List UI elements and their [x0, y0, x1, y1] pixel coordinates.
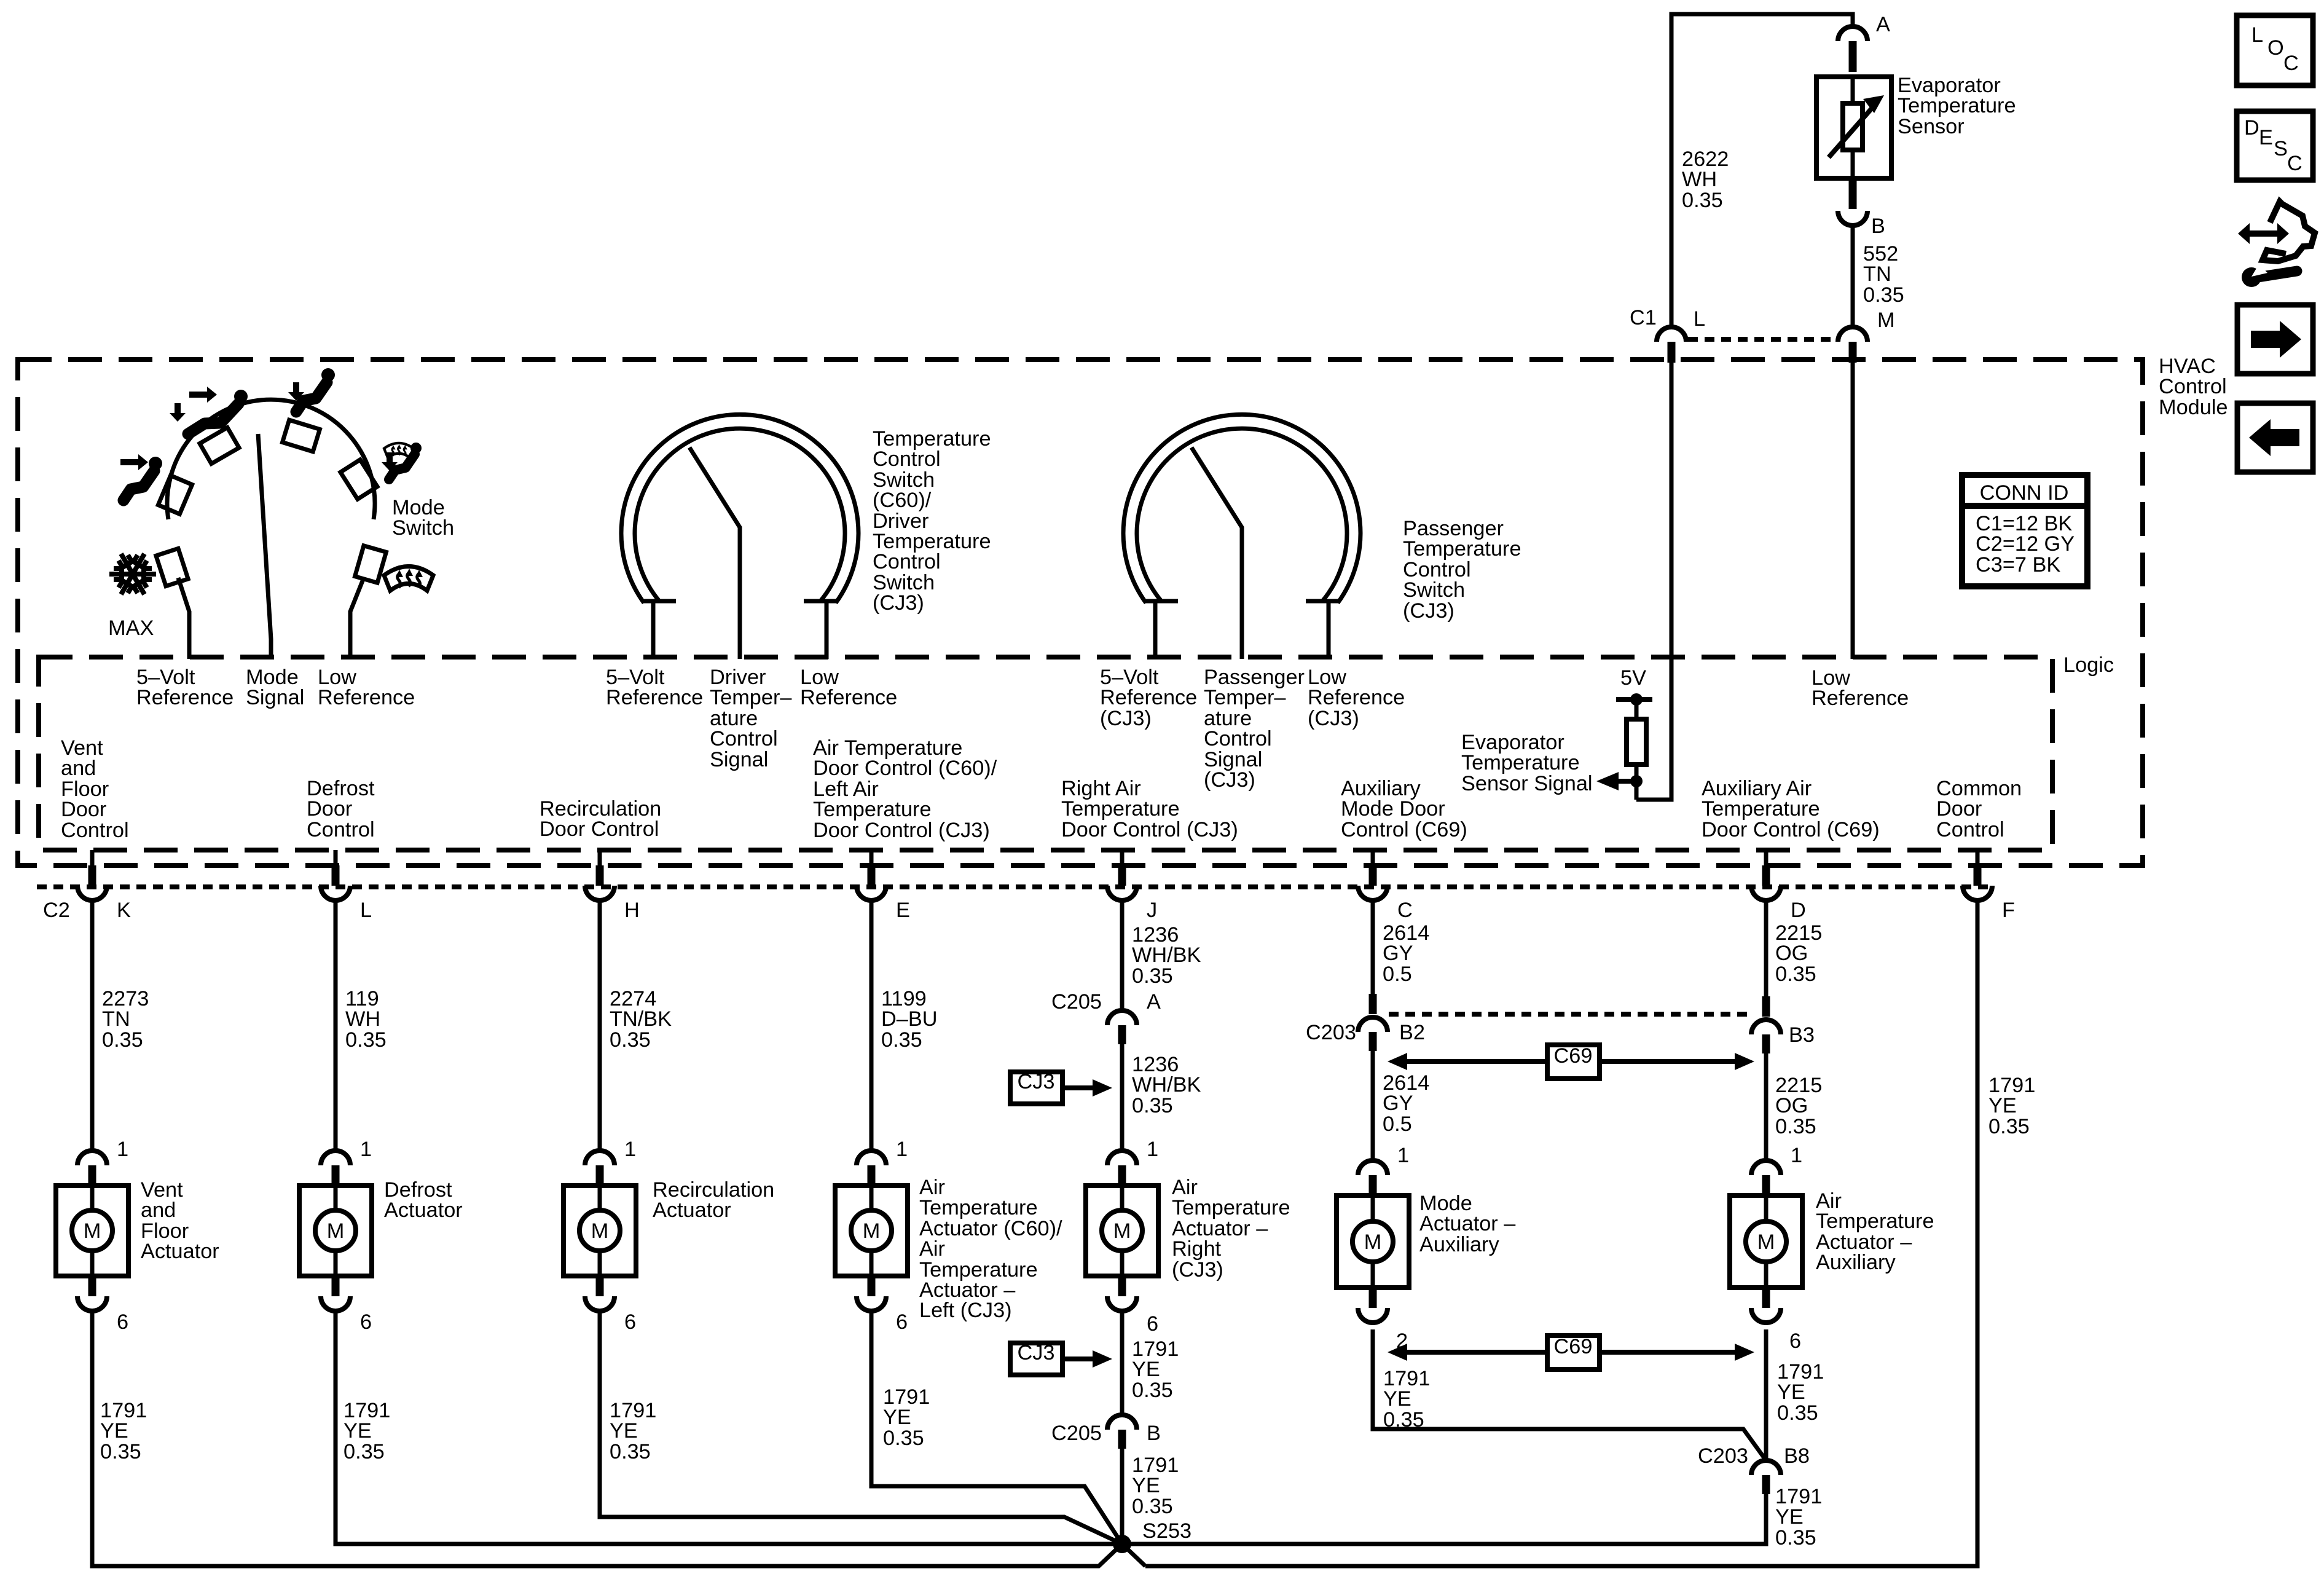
svg-text:and: and	[61, 757, 96, 780]
svg-text:(C60)/: (C60)/	[873, 489, 932, 512]
svg-text:C2: C2	[43, 899, 70, 922]
svg-text:Temperature: Temperature	[1898, 94, 2016, 117]
wire 1791 YE 0.35 (H to S253)	[600, 1311, 1122, 1544]
svg-text:(CJ3): (CJ3)	[1172, 1258, 1223, 1282]
connector C1 pin L	[1657, 327, 1686, 363]
svg-text:Reference: Reference	[136, 686, 234, 709]
svg-text:L: L	[360, 899, 372, 922]
svg-text:1: 1	[896, 1138, 908, 1161]
svg-text:M: M	[1877, 309, 1895, 332]
connector pin 6 (Recirculation Actuator)	[585, 1276, 614, 1311]
C69 reference arrows (lower)	[1388, 1335, 1754, 1369]
C69 reference arrows (upper)	[1388, 1044, 1754, 1079]
svg-text:Actuator: Actuator	[384, 1199, 463, 1222]
svg-text:0.35: 0.35	[1777, 1401, 1818, 1425]
actuator motor: Mode Actuator Auxiliary	[1337, 1195, 1409, 1288]
wire 1791 YE 0.35 (B8 to S253)	[1122, 1494, 1766, 1544]
connector C2 pin L	[321, 850, 350, 900]
connector pin 1 (Defrost Actuator)	[321, 1151, 350, 1186]
passenger switch wiper	[1191, 447, 1242, 659]
svg-text:CONN ID: CONN ID	[1980, 481, 2069, 505]
svg-text:0.35: 0.35	[1132, 1379, 1173, 1402]
svg-text:Temperature: Temperature	[813, 798, 932, 821]
svg-text:C69: C69	[1554, 1335, 1593, 1358]
connector C2 pin C	[1358, 850, 1388, 900]
svg-text:0.35: 0.35	[881, 1028, 922, 1052]
svg-text:Control: Control	[307, 818, 375, 841]
svg-text:Temper–: Temper–	[710, 686, 792, 709]
svg-text:Door: Door	[1936, 797, 1982, 821]
svg-text:C: C	[1397, 899, 1413, 922]
splice S253	[1113, 1535, 1131, 1553]
svg-text:Door Control: Door Control	[540, 817, 659, 841]
connector C2 pin K	[77, 850, 107, 900]
svg-text:GY: GY	[1383, 1092, 1413, 1115]
connector pin A	[1838, 26, 1867, 72]
svg-text:CJ3: CJ3	[1018, 1070, 1055, 1093]
svg-text:L: L	[2251, 23, 2263, 47]
svg-text:Switch: Switch	[1403, 578, 1465, 602]
wire 1791 YE 0.35 (D actuator to C203 B8)	[1764, 1329, 1769, 1460]
svg-text:0.35: 0.35	[1988, 1115, 2030, 1138]
svg-text:(CJ3): (CJ3)	[1308, 707, 1359, 730]
icon: floor mode (person, right arrow)	[120, 454, 162, 500]
svg-text:Control (C69): Control (C69)	[1341, 818, 1467, 841]
svg-text:Air: Air	[919, 1237, 945, 1261]
icon arrow-left box	[2237, 403, 2313, 472]
svg-text:Control: Control	[61, 819, 129, 842]
icon arrow-right box	[2237, 305, 2313, 374]
5V supply bar	[1616, 697, 1652, 702]
connector C2 pin F	[1963, 850, 1992, 900]
svg-text:M: M	[327, 1219, 345, 1243]
svg-text:Actuator: Actuator	[653, 1199, 731, 1222]
passenger switch leg low ref	[1327, 601, 1331, 659]
actuator motor: Defrost Actuator	[299, 1186, 372, 1276]
svg-text:YE: YE	[1383, 1387, 1411, 1411]
svg-text:MAX: MAX	[108, 616, 154, 640]
wire 1791 YE 0.35 (L to S253)	[336, 1311, 1122, 1544]
wire 2274 TN/BK 0.35 (H)	[598, 900, 602, 1151]
svg-text:A: A	[1876, 13, 1890, 36]
svg-text:M: M	[84, 1219, 101, 1243]
driver switch leg low ref	[825, 601, 829, 659]
svg-text:Door: Door	[307, 797, 352, 821]
CONN ID table	[1962, 475, 2087, 586]
svg-text:M: M	[1757, 1231, 1775, 1254]
svg-text:Reference: Reference	[318, 686, 415, 709]
svg-text:1: 1	[360, 1138, 372, 1161]
svg-text:C203: C203	[1306, 1021, 1356, 1044]
svg-text:YE: YE	[610, 1419, 638, 1443]
svg-text:Signal: Signal	[246, 686, 304, 709]
icon LOC box	[2237, 15, 2313, 85]
svg-text:(CJ3): (CJ3)	[873, 591, 924, 615]
svg-text:C3=7 BK: C3=7 BK	[1976, 553, 2060, 577]
svg-text:C69: C69	[1554, 1044, 1593, 1068]
svg-text:Temperature: Temperature	[1403, 537, 1521, 561]
mode switch wiper	[258, 434, 271, 659]
CJ3 reference box (upper)	[1010, 1070, 1112, 1104]
svg-text:S253: S253	[1142, 1519, 1191, 1543]
mode switch contacts	[156, 420, 387, 586]
svg-text:M: M	[591, 1219, 609, 1243]
wire 1236 WH/BK 0.35 (J upper)	[1120, 900, 1125, 1010]
svg-text:0.35: 0.35	[883, 1427, 924, 1450]
svg-text:Actuator: Actuator	[141, 1240, 219, 1263]
svg-text:Mode Door: Mode Door	[1341, 797, 1445, 821]
svg-text:0.35: 0.35	[610, 1440, 651, 1463]
driver switch leg 5-volt	[651, 601, 656, 659]
svg-text:1: 1	[117, 1138, 128, 1161]
svg-text:E: E	[2259, 126, 2273, 149]
svg-text:Actuator –: Actuator –	[1419, 1212, 1516, 1235]
svg-text:and: and	[141, 1199, 176, 1222]
wire: C1-L up over to sensor pin A	[1671, 14, 1853, 327]
svg-text:M: M	[1364, 1231, 1382, 1254]
svg-text:YE: YE	[1132, 1358, 1160, 1381]
wire 1199 D-BU 0.35 (E)	[870, 900, 874, 1151]
wire 2614 GY 0.5 (C lower)	[1371, 1051, 1375, 1163]
svg-text:C1: C1	[1630, 306, 1657, 329]
svg-text:1: 1	[624, 1138, 636, 1161]
svg-text:WH: WH	[1682, 168, 1717, 191]
svg-text:0.35: 0.35	[1775, 963, 1816, 986]
svg-text:Reference: Reference	[800, 686, 897, 709]
svg-text:F: F	[2002, 899, 2015, 922]
passenger switch leg 5-volt	[1153, 601, 1158, 659]
svg-text:1: 1	[1791, 1144, 1802, 1167]
connector C203 pin B3	[1751, 1020, 1781, 1053]
svg-text:GY: GY	[1383, 942, 1413, 965]
svg-text:B2: B2	[1399, 1021, 1425, 1044]
mode switch arc	[167, 400, 375, 519]
actuator motor: Air Temperature Actuator Right	[1086, 1186, 1158, 1276]
svg-text:Temperature: Temperature	[1461, 751, 1580, 774]
svg-text:C205: C205	[1051, 990, 1102, 1014]
connector C1 pin M	[1838, 327, 1867, 363]
connector pin 1 (Recirculation Actuator)	[585, 1151, 614, 1186]
wire 2215 OG 0.35 (D lower)	[1764, 1053, 1769, 1163]
wire: C1-L down to sensor signal node	[1636, 363, 1671, 800]
CJ3 reference box (lower)	[1010, 1341, 1112, 1375]
svg-text:1: 1	[1397, 1144, 1409, 1167]
svg-text:Right: Right	[1172, 1237, 1222, 1261]
svg-text:O: O	[2267, 36, 2284, 60]
svg-text:Door Control (CJ3): Door Control (CJ3)	[813, 819, 990, 842]
connector C2 pin H	[585, 850, 614, 900]
svg-text:E: E	[896, 899, 910, 922]
C1 dotted separator	[1688, 337, 1838, 342]
svg-text:M: M	[863, 1219, 881, 1243]
svg-text:(CJ3): (CJ3)	[1204, 768, 1255, 792]
icon DESC box	[2237, 111, 2313, 180]
connector C2 pin D	[1751, 850, 1781, 900]
svg-text:(CJ3): (CJ3)	[1100, 707, 1152, 730]
svg-text:B: B	[1147, 1422, 1161, 1445]
svg-text:Auxiliary: Auxiliary	[1419, 1233, 1499, 1256]
svg-text:Door Control (C69): Door Control (C69)	[1702, 818, 1880, 841]
svg-text:S: S	[2274, 137, 2288, 160]
connector pin 1 (Air Temperature Actuator Right)	[1107, 1151, 1137, 1186]
wire 2614 GY 0.5 (C upper)	[1371, 900, 1375, 996]
svg-text:0.5: 0.5	[1383, 963, 1412, 986]
svg-text:C205: C205	[1051, 1422, 1102, 1445]
svg-text:Control: Control	[710, 727, 778, 750]
Logic box	[39, 657, 2052, 850]
svg-text:6: 6	[1147, 1312, 1158, 1336]
connector C205 pin B	[1107, 1415, 1137, 1449]
svg-text:0.35: 0.35	[1682, 189, 1723, 212]
svg-text:0.35: 0.35	[102, 1028, 143, 1052]
svg-text:Reference: Reference	[1308, 686, 1405, 709]
svg-text:Switch: Switch	[392, 516, 454, 540]
wire 1791 YE 0.35 (J upper)	[1120, 1311, 1125, 1415]
svg-text:Control: Control	[2159, 375, 2227, 398]
C2 dotted separator	[37, 884, 1991, 889]
svg-text:(CJ3): (CJ3)	[1403, 599, 1454, 623]
svg-text:Sensor: Sensor	[1898, 115, 1965, 138]
svg-text:Temperature: Temperature	[1816, 1210, 1934, 1233]
mode switch leg to low reference	[350, 578, 364, 659]
svg-text:6: 6	[117, 1310, 128, 1334]
svg-text:Door: Door	[61, 798, 106, 821]
svg-text:CJ3: CJ3	[1018, 1341, 1055, 1364]
svg-text:Sensor Signal: Sensor Signal	[1461, 772, 1593, 795]
evaporator temperature sensor (thermistor)	[1816, 77, 1891, 178]
evaporator temperature sensor signal arrow	[1596, 772, 1636, 790]
svg-text:Reference: Reference	[1812, 687, 1909, 710]
connector C203 pin B8	[1751, 1460, 1781, 1494]
svg-text:0.35: 0.35	[1383, 1408, 1424, 1431]
svg-text:Door Control (CJ3): Door Control (CJ3)	[1061, 818, 1238, 841]
svg-text:0.35: 0.35	[1132, 1094, 1173, 1117]
connector C2 pin J	[1107, 850, 1137, 900]
svg-text:H: H	[624, 899, 640, 922]
actuator motor: Recirculation Actuator	[563, 1186, 636, 1276]
wire 1791 YE 0.35 (J to S253)	[1120, 1449, 1125, 1544]
svg-text:WH/BK: WH/BK	[1132, 1073, 1201, 1097]
svg-text:L: L	[1694, 307, 1705, 331]
actuator motor: Air Temperature Actuator Auxiliary	[1730, 1195, 1802, 1288]
svg-text:YE: YE	[1988, 1094, 2017, 1117]
svg-text:Signal: Signal	[710, 748, 768, 771]
connector pin 6 (Air Temperature Actuator Auxiliary)	[1751, 1288, 1781, 1323]
svg-text:Door Control (C60)/: Door Control (C60)/	[813, 757, 997, 780]
icon: defrost windshield	[384, 567, 433, 591]
actuator motor: Vent and Floor Actuator	[56, 1186, 128, 1276]
driver switch wiper	[689, 447, 740, 659]
wire 2215 OG 0.35 (D upper)	[1764, 900, 1769, 998]
svg-text:J: J	[1147, 899, 1157, 922]
connector pin 6 (Defrost Actuator)	[321, 1276, 350, 1311]
connector pin 1 (Vent and Floor Actuator)	[77, 1151, 107, 1186]
svg-text:Temperature: Temperature	[1172, 1196, 1290, 1219]
svg-text:Control: Control	[1936, 818, 2004, 841]
svg-text:Control: Control	[1204, 727, 1272, 750]
svg-text:YE: YE	[343, 1419, 372, 1443]
resistor (evap sensor pull-up)	[1627, 699, 1646, 781]
connector pin 6 (Air Temperature Actuator Left)	[857, 1276, 886, 1311]
svg-text:YE: YE	[883, 1406, 911, 1429]
svg-text:YE: YE	[1777, 1380, 1805, 1404]
svg-text:Auxiliary: Auxiliary	[1816, 1251, 1896, 1274]
actuator motor: Air Temperature Actuator Left	[835, 1186, 908, 1276]
svg-text:6: 6	[896, 1310, 908, 1334]
svg-text:Module: Module	[2159, 396, 2228, 419]
svg-text:0.5: 0.5	[1383, 1112, 1412, 1136]
S253 splice diagonal to F line	[1122, 1544, 1145, 1566]
svg-text:0.35: 0.35	[1775, 1526, 1816, 1549]
svg-text:Temper–: Temper–	[1204, 686, 1286, 709]
svg-text:1: 1	[1147, 1138, 1158, 1161]
svg-text:5V: 5V	[1620, 666, 1646, 690]
svg-text:B3: B3	[1789, 1023, 1815, 1047]
wire: B to C1-M	[1851, 226, 1855, 327]
svg-text:OG: OG	[1775, 1094, 1808, 1117]
svg-text:TN/BK: TN/BK	[610, 1007, 672, 1031]
connector pin 6 (Air Temperature Actuator Right)	[1107, 1276, 1137, 1311]
svg-text:0.35: 0.35	[1775, 1115, 1816, 1138]
connector C203 pin B2	[1358, 1017, 1388, 1051]
svg-text:D–BU: D–BU	[881, 1007, 938, 1031]
svg-text:B: B	[1871, 215, 1885, 238]
svg-text:6: 6	[360, 1310, 372, 1334]
svg-text:TN: TN	[1863, 262, 1891, 286]
icon: snowflake MAX A/C	[109, 554, 156, 594]
svg-text:C: C	[2287, 152, 2302, 175]
C203 dotted separator	[1389, 1012, 1750, 1017]
svg-text:TN: TN	[102, 1007, 130, 1031]
svg-text:YE: YE	[1775, 1505, 1804, 1529]
wire 1791 YE 0.35 (C mode actuator to C203 B8)	[1373, 1329, 1766, 1460]
svg-text:Control: Control	[873, 447, 941, 471]
connector pin B	[1838, 178, 1867, 226]
svg-text:0.35: 0.35	[1132, 1495, 1173, 1518]
svg-text:D: D	[2244, 116, 2259, 140]
svg-text:C203: C203	[1698, 1444, 1748, 1468]
temperature control switch (driver)	[621, 414, 858, 603]
wire: C1-M down to Low Reference	[1851, 363, 1855, 659]
svg-text:Reference: Reference	[1100, 686, 1197, 709]
svg-text:0.35: 0.35	[100, 1440, 141, 1463]
svg-text:0.35: 0.35	[1132, 964, 1173, 988]
connector C2 pin E	[857, 850, 886, 900]
svg-text:6: 6	[624, 1310, 636, 1334]
icon service wrench with double arrow	[2238, 202, 2315, 287]
svg-text:WH/BK: WH/BK	[1132, 943, 1201, 967]
svg-text:YE: YE	[1132, 1474, 1160, 1497]
svg-text:K: K	[117, 899, 131, 922]
svg-text:B8: B8	[1784, 1444, 1810, 1468]
svg-text:Reference: Reference	[606, 686, 703, 709]
connector pin 1 (Air Temperature Actuator Left)	[857, 1151, 886, 1186]
svg-text:Temperature: Temperature	[919, 1196, 1038, 1219]
svg-text:0.35: 0.35	[610, 1028, 651, 1052]
connector pin 1 (Mode Actuator Auxiliary)	[1358, 1160, 1388, 1195]
junction dot at 5V bar	[1630, 693, 1643, 706]
svg-text:C2=12 GY: C2=12 GY	[1976, 532, 2075, 556]
HVAC Control Module boundary box	[18, 360, 2143, 865]
wire 2273 TN 0.35 (K)	[90, 900, 95, 1151]
svg-text:Temperature: Temperature	[1061, 797, 1180, 821]
icon: defrost-floor mode (windshield, person, down arrow)	[382, 443, 422, 479]
junction dot at sensor signal node	[1630, 775, 1643, 787]
svg-text:6: 6	[1789, 1329, 1801, 1353]
wire 1791 YE 0.35 (K to S253)	[92, 1311, 1122, 1566]
svg-text:Left (CJ3): Left (CJ3)	[919, 1299, 1012, 1322]
wire 1791 YE 0.35 (F)	[1145, 900, 1977, 1566]
connector pin 6 (Mode Actuator Auxiliary)	[1358, 1288, 1388, 1323]
svg-text:0.35: 0.35	[343, 1440, 385, 1463]
mode switch leg to 5-volt reference	[178, 578, 189, 659]
svg-text:WH: WH	[345, 1007, 380, 1031]
svg-text:C: C	[2283, 52, 2299, 75]
svg-text:Logic: Logic	[2063, 653, 2114, 677]
svg-text:0.35: 0.35	[1863, 283, 1904, 307]
svg-text:M: M	[1113, 1219, 1131, 1243]
icon: face mode (person, down arrow)	[288, 368, 335, 412]
connector pin 6 (Vent and Floor Actuator)	[77, 1276, 107, 1311]
wire 1791 YE 0.35 (E to S253)	[871, 1311, 1122, 1544]
svg-text:0.35: 0.35	[345, 1028, 387, 1052]
svg-text:YE: YE	[100, 1419, 128, 1443]
connector C205 pin A	[1107, 1010, 1137, 1044]
svg-text:Temperature: Temperature	[1702, 797, 1820, 821]
svg-text:Control: Control	[873, 550, 941, 573]
wire 119 WH 0.35 (L)	[334, 900, 338, 1151]
passenger temperature control switch	[1123, 414, 1360, 603]
svg-text:OG: OG	[1775, 942, 1808, 965]
connector pin 1 (Air Temperature Actuator Auxiliary)	[1751, 1160, 1781, 1195]
icon: vent mode (person, down+right arrows)	[170, 387, 248, 434]
wire 1236 WH/BK 0.35 (J lower)	[1120, 1044, 1125, 1151]
svg-text:A: A	[1147, 990, 1161, 1014]
svg-text:D: D	[1791, 899, 1806, 922]
